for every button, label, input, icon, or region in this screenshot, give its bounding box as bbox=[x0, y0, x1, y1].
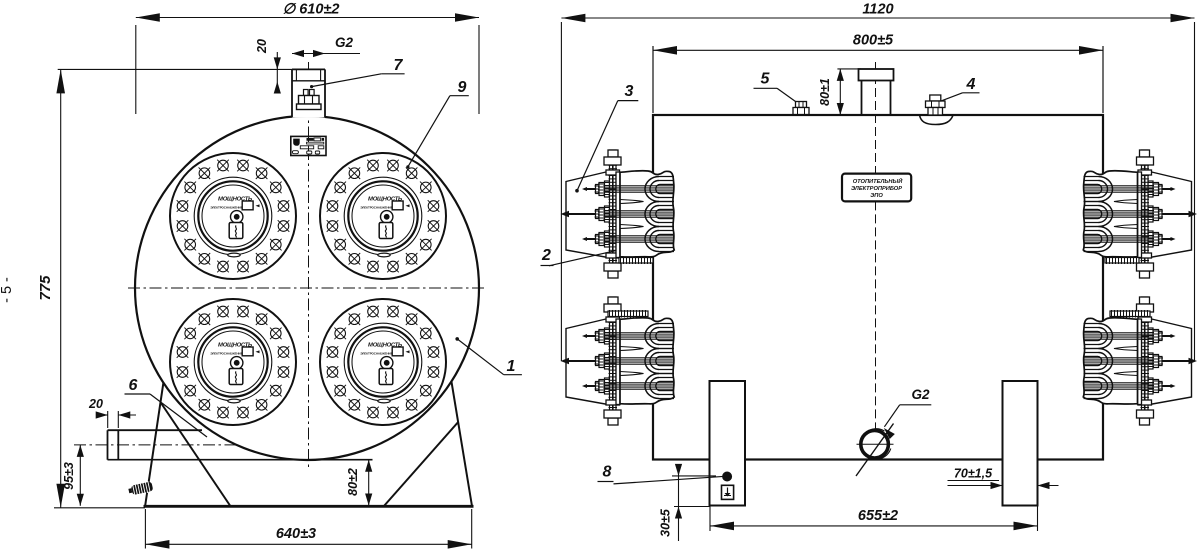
svg-text:ЭЛЕКТРОПРИБОР: ЭЛЕКТРОПРИБОР bbox=[851, 186, 902, 192]
right view centerline bbox=[875, 62, 877, 460]
svg-text:8: 8 bbox=[603, 464, 612, 481]
stand base plate bbox=[144, 505, 474, 508]
svg-text:1120: 1120 bbox=[862, 2, 893, 18]
extension line 775 top bbox=[58, 68, 292, 70]
callout G2 bottom bbox=[881, 387, 931, 439]
dimension 775 bbox=[37, 69, 65, 507]
svg-text:4: 4 bbox=[966, 76, 976, 93]
flange bottom-left bbox=[170, 299, 296, 425]
dimension dia 610±2 bbox=[136, 2, 479, 115]
tank shell circle bbox=[135, 116, 479, 460]
flange bottom-right bbox=[320, 299, 446, 425]
page number bbox=[0, 277, 15, 303]
callout 4 bbox=[941, 76, 980, 101]
grease fitting bbox=[128, 480, 154, 496]
ground bolt item 8 bbox=[722, 472, 734, 500]
callout 7 bbox=[310, 57, 405, 88]
stand right gusset bbox=[384, 422, 458, 506]
heater element group right-bottom bbox=[1083, 297, 1197, 425]
stand left gusset bbox=[161, 403, 230, 506]
label box EPO bbox=[842, 174, 911, 202]
top nozzle G2 bbox=[292, 69, 325, 117]
flange top-left bbox=[170, 153, 296, 279]
dimension 80±2 bbox=[309, 460, 373, 506]
svg-text:6: 6 bbox=[129, 377, 138, 394]
svg-text:G2: G2 bbox=[335, 35, 354, 50]
svg-text:655±2: 655±2 bbox=[858, 508, 898, 524]
G2 threaded boss bbox=[856, 424, 894, 477]
svg-text:3: 3 bbox=[625, 83, 634, 100]
horizontal centerline bbox=[128, 287, 487, 289]
vent plug item 7 bbox=[297, 90, 322, 110]
right view top nozzle bbox=[859, 69, 894, 115]
mounting bolt bar left-top bbox=[619, 257, 653, 265]
right leg bbox=[1003, 381, 1038, 506]
heater element group right-top bbox=[1083, 150, 1197, 278]
svg-text:G2: G2 bbox=[911, 387, 930, 402]
stand top edge / pipe bottom line bbox=[108, 459, 373, 461]
svg-text:640±3: 640±3 bbox=[276, 526, 316, 542]
flange top-right (item 9) bbox=[320, 153, 446, 279]
svg-text:ЭПО: ЭПО bbox=[870, 193, 883, 199]
callout 3 bbox=[575, 83, 638, 193]
svg-text:9: 9 bbox=[458, 79, 467, 96]
svg-text:7: 7 bbox=[394, 57, 404, 74]
dimension 1120 bbox=[561, 2, 1194, 362]
vertical centerline bbox=[308, 62, 310, 467]
svg-text:70±1,5: 70±1,5 bbox=[954, 467, 993, 481]
dimension 30±5 bbox=[659, 464, 717, 541]
mounting bolt bar right-top bbox=[1105, 257, 1139, 265]
svg-text:20: 20 bbox=[88, 397, 103, 411]
heater element group left-bottom bbox=[561, 297, 675, 425]
svg-text:5: 5 bbox=[761, 71, 771, 88]
callout 1 bbox=[455, 337, 522, 375]
drain pipe centerline bbox=[74, 444, 251, 446]
svg-text:775: 775 bbox=[37, 275, 54, 301]
mounting bolt bar right-bottom bbox=[1110, 310, 1150, 318]
callout 8 bbox=[598, 464, 726, 484]
svg-text:- 5 -: - 5 - bbox=[0, 277, 15, 303]
dimension 95±3 bbox=[62, 445, 84, 506]
callout 6 bbox=[125, 377, 208, 437]
svg-text:∅ 610±2: ∅ 610±2 bbox=[283, 2, 340, 18]
dimension 640±3 bbox=[145, 509, 471, 549]
terminal bolt item 4 bbox=[920, 95, 953, 125]
svg-text:30±5: 30±5 bbox=[659, 508, 673, 537]
stand left slant edge bbox=[145, 382, 163, 506]
svg-text:80±1: 80±1 bbox=[818, 78, 832, 106]
callout 9 bbox=[406, 79, 469, 168]
dimension 70±1,5 bbox=[948, 467, 1059, 490]
callout 5 bbox=[754, 71, 796, 102]
callout 2 bbox=[541, 247, 617, 266]
thermostat bolt item 5 bbox=[793, 102, 809, 115]
dimension 20 top bbox=[255, 39, 281, 93]
stand right slant edge bbox=[451, 377, 472, 506]
svg-text:95±3: 95±3 bbox=[62, 462, 76, 490]
svg-text:2: 2 bbox=[541, 247, 551, 264]
svg-text:ОТОПИТЕЛЬНЫЙ: ОТОПИТЕЛЬНЫЙ bbox=[853, 177, 903, 185]
dimension 80±1 bbox=[818, 69, 861, 115]
extension line 775 bottom bbox=[54, 507, 145, 509]
svg-text:80±2: 80±2 bbox=[346, 468, 360, 496]
svg-text:20: 20 bbox=[255, 39, 269, 54]
dimension 20 bottom bbox=[88, 397, 136, 428]
mounting bolt bar left-bottom bbox=[608, 310, 648, 318]
nameplate bbox=[291, 136, 326, 155]
tank body outline bbox=[653, 115, 1103, 460]
left leg bbox=[710, 381, 746, 506]
dimension 800±5 bbox=[653, 33, 1103, 114]
heater element group left-top (item 3) bbox=[561, 150, 675, 278]
svg-text:800±5: 800±5 bbox=[853, 33, 894, 49]
dimension G2 top bbox=[292, 35, 360, 57]
svg-text:1: 1 bbox=[507, 358, 516, 375]
dimension 655±2 bbox=[710, 507, 1038, 532]
drain pipe body bbox=[108, 430, 203, 460]
